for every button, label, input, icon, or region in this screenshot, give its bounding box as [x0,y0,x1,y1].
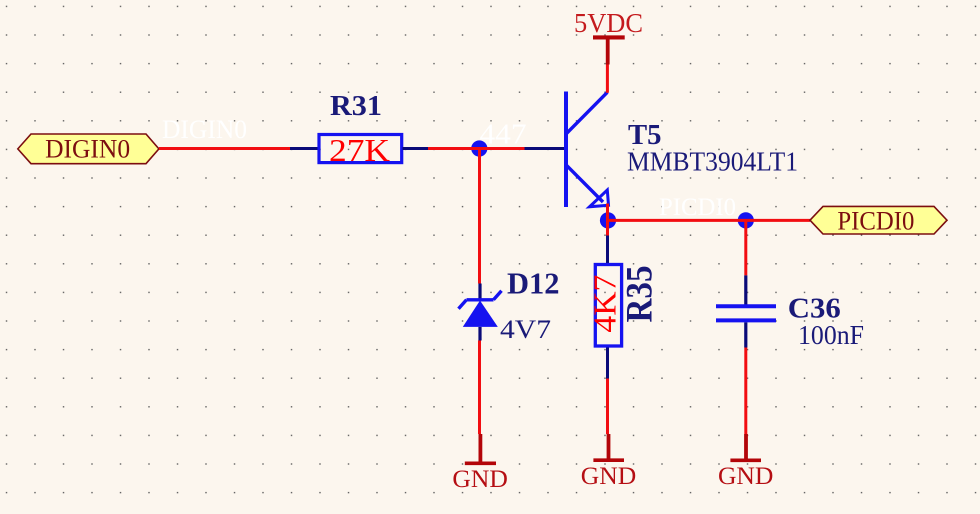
wire node B to PICDI0 [608,219,810,222]
wire node B to R35 [606,226,609,236]
svg-text:447: 447 [480,120,527,151]
pin R31 left [290,147,319,150]
wire C36 to GND [744,348,747,435]
capacitor C36 [716,275,776,347]
pin T5 base [525,147,565,150]
wire emitter to node B [606,204,609,227]
ground GND3 [718,434,774,490]
svg-text:GND: GND [718,461,774,490]
svg-text:D12: D12 [507,266,560,300]
pin R35 bottom [606,348,609,379]
transistor T5 [566,92,609,208]
resistor R31 [319,132,402,168]
svg-text:GND: GND [452,464,508,493]
wire R31 to node A [428,147,525,150]
resistor R35 [587,265,623,347]
wire DIGIN0 to R31 [159,147,290,150]
pin R31 right [403,147,429,150]
ground GND2 [581,434,637,490]
wire node C to C36 [744,220,747,275]
svg-text:PICDI0: PICDI0 [659,192,736,221]
wire R35 to GND [606,379,609,435]
svg-text:4V7: 4V7 [500,314,551,344]
svg-text:PICDI0: PICDI0 [837,206,914,236]
svg-text:27K: 27K [329,132,390,168]
port PICDI0 [810,206,947,236]
power 5VDC [574,8,643,65]
port DIGIN0 [18,134,159,164]
svg-text:4K7: 4K7 [587,275,623,333]
zener diode D12 [459,284,502,341]
svg-text:MMBT3904LT1: MMBT3904LT1 [627,147,798,177]
junction node B [600,212,616,228]
wire node A to D12 [478,149,481,284]
svg-text:DIGIN0: DIGIN0 [162,115,247,144]
wire collector to 5VDC [606,65,609,93]
wire D12 to GND [478,341,481,435]
svg-text:R31: R31 [330,90,382,122]
junction node C [738,212,754,228]
svg-text:R35: R35 [620,266,661,323]
svg-text:100nF: 100nF [798,320,864,350]
svg-text:5VDC: 5VDC [574,8,643,38]
svg-text:GND: GND [581,461,637,490]
ground GND1 [452,434,508,493]
svg-text:DIGIN0: DIGIN0 [45,134,130,164]
pin R35 top [606,236,609,265]
junction node A [471,140,487,156]
